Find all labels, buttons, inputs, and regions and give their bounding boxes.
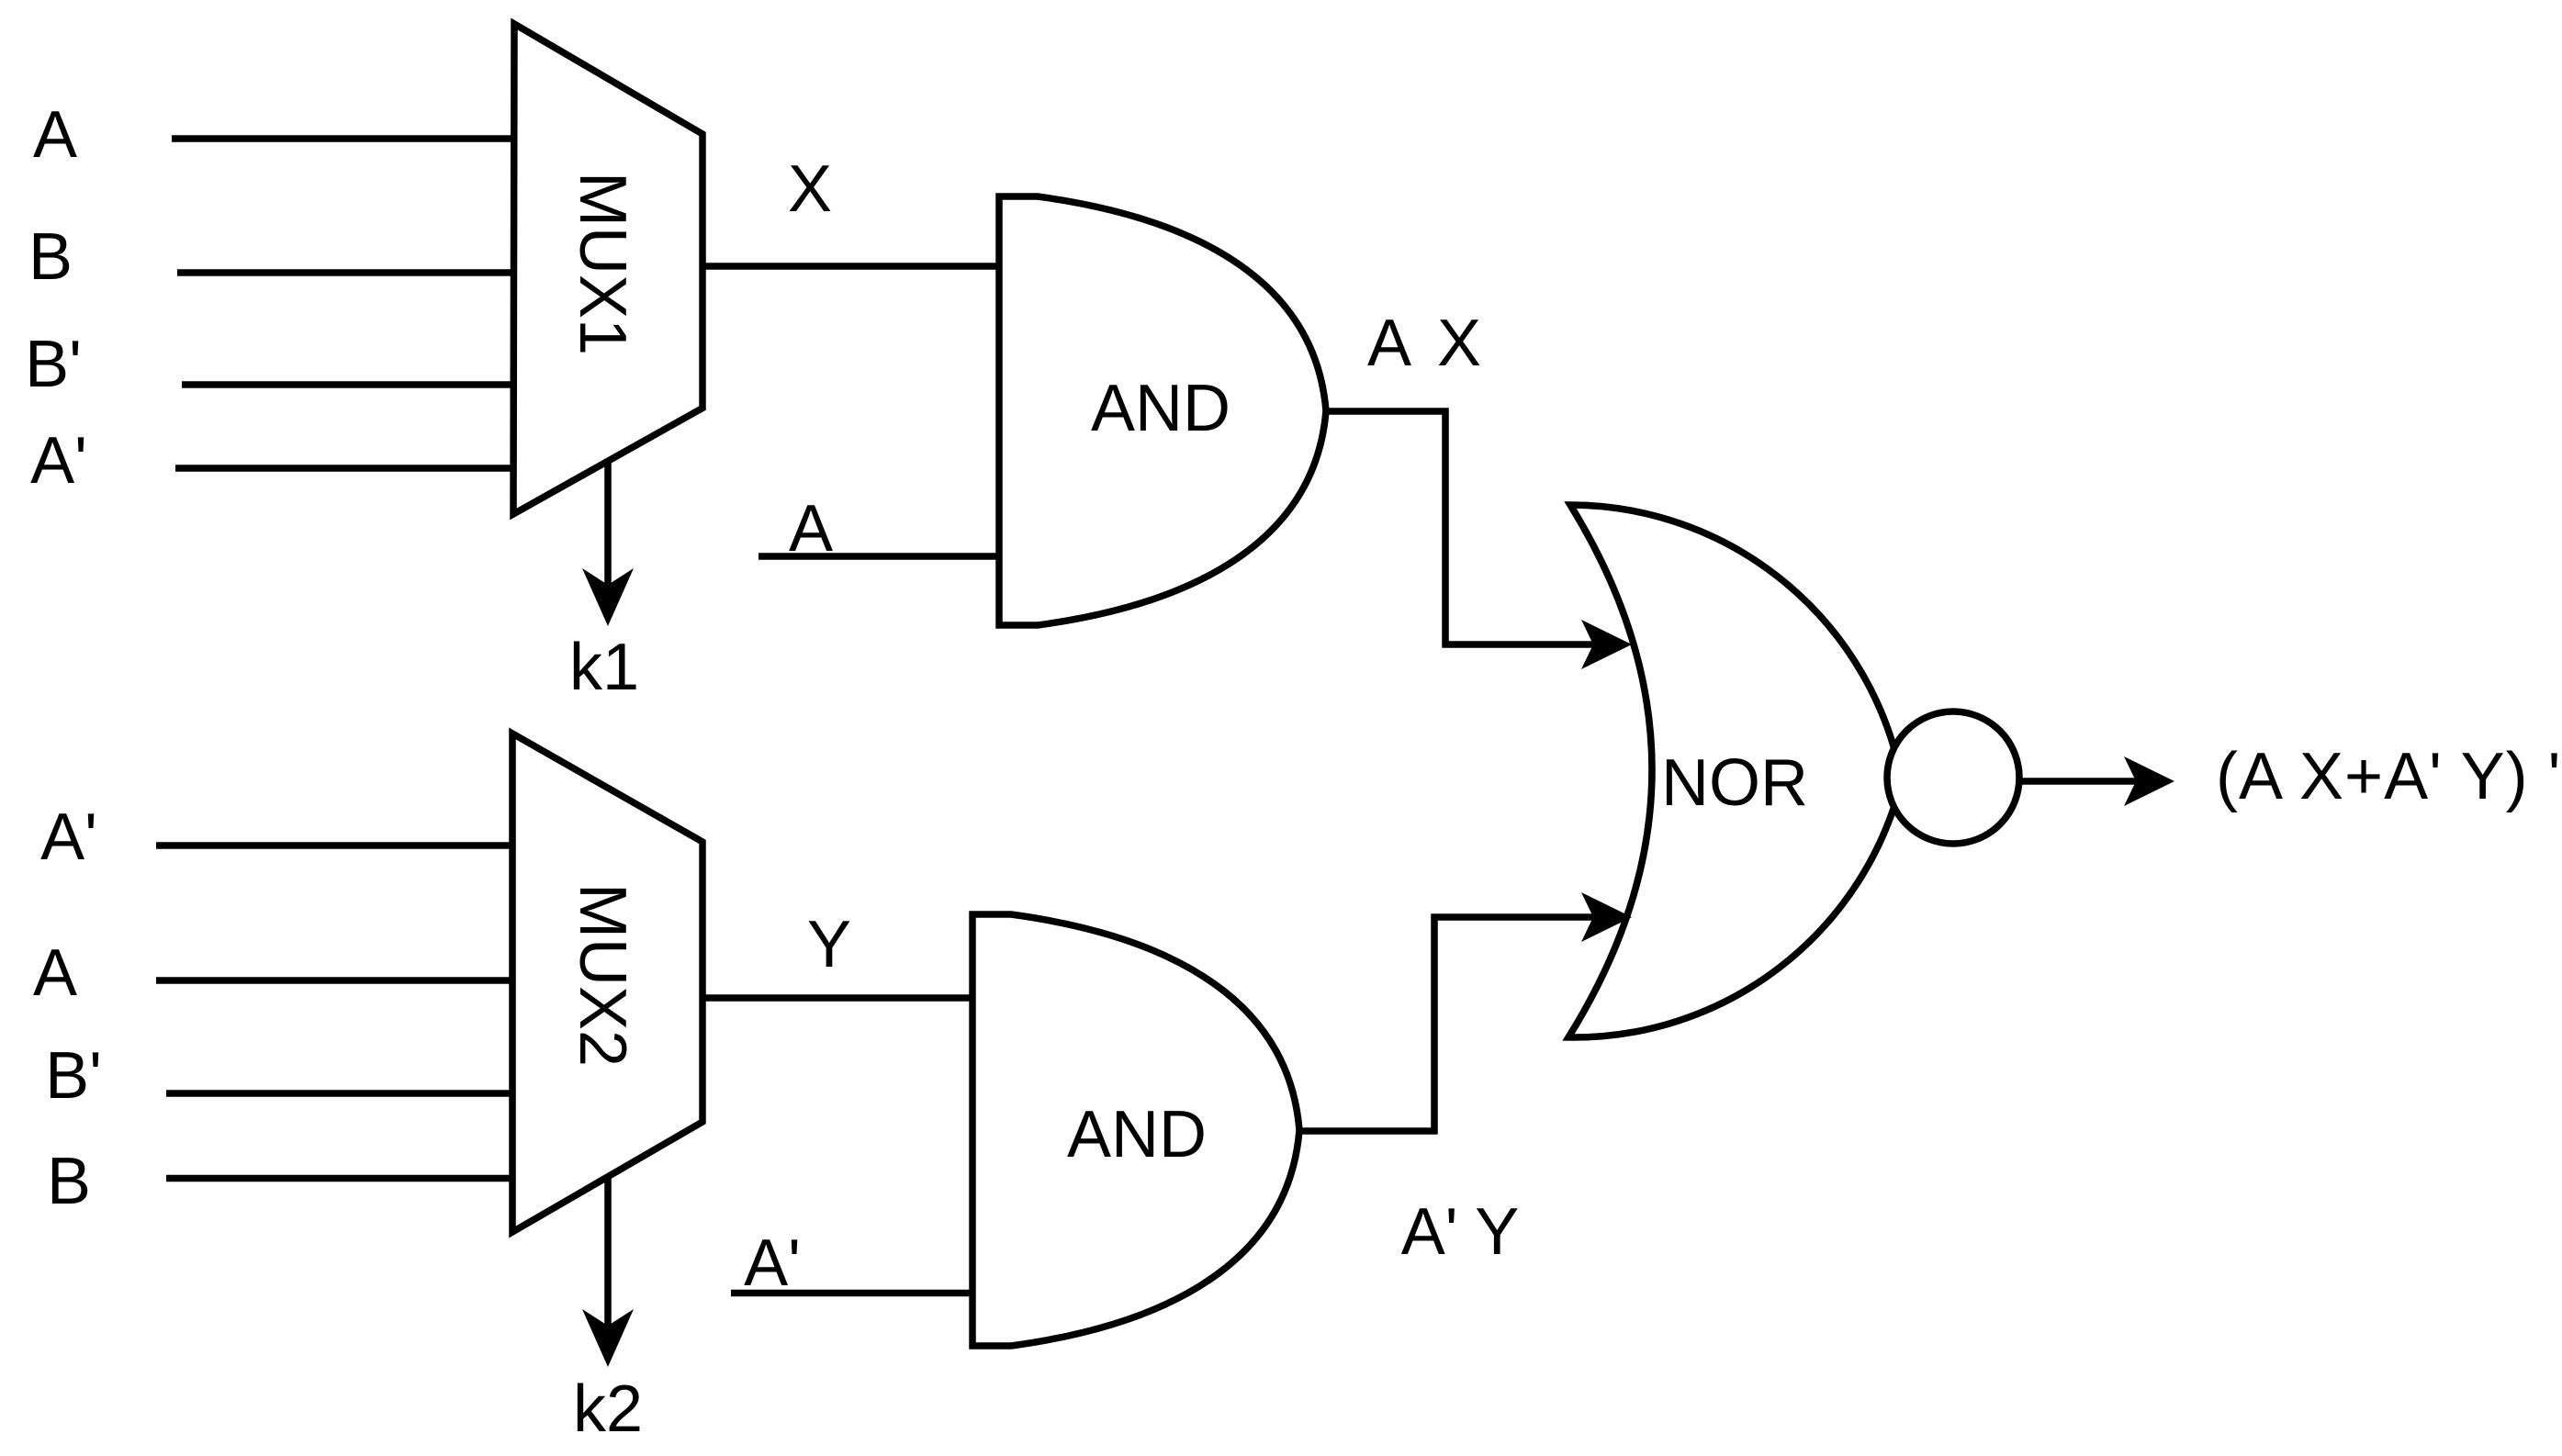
wire B to MUX2 [166,1175,512,1182]
arrowhead A X into NOR [1581,620,1632,669]
svg-text:B: B [47,1145,91,1218]
multiplexer MUX1 body [513,24,702,514]
arrowhead NOR output [2124,756,2174,806]
svg-text:k1: k1 [569,631,639,704]
svg-text:k2: k2 [573,1372,643,1446]
wire Y from MUX2 to AND2 [702,994,972,1002]
wire k2 select (from MUX2 bottom slant) [604,1179,612,1333]
svg-text:A: A [33,98,77,172]
svg-text:(A X+A' Y) ': (A X+A' Y) ' [2216,740,2561,813]
svg-text:B': B' [45,1039,102,1113]
svg-text:NOR: NOR [1661,746,1808,820]
wire A to AND1 [758,553,999,560]
nor-gate U3 body [1568,505,1902,1037]
svg-text:A' Y: A' Y [1401,1195,1520,1269]
svg-text:MUX2: MUX2 [566,883,639,1067]
NOR inversion bubble [1887,711,2019,844]
wire A' to MUX1 [175,465,514,472]
wire X from MUX1 to AND1 [702,263,999,270]
wire A X from AND1 to NOR top input [1326,411,1593,644]
and-gate U2 (bottom AND) [972,914,1299,1346]
svg-text:B: B [28,220,73,294]
svg-text:A: A [33,936,77,1010]
svg-text:AND: AND [1067,1098,1207,1171]
wire A' to MUX2 [156,842,512,849]
svg-text:X: X [788,152,832,226]
wire k1 select (from MUX1 bottom slant) [604,462,612,592]
svg-text:B': B' [25,328,82,401]
svg-text:A': A' [744,1226,801,1300]
arrowhead k2 [582,1309,634,1367]
svg-text:MUX1: MUX1 [566,172,639,355]
wire A to MUX1 [172,135,514,142]
svg-text:A X: A X [1367,307,1487,380]
wire A' Y from AND2 to NOR bottom input [1299,917,1593,1131]
wire NOR output [2022,778,2136,785]
wire A to MUX2 [156,977,512,984]
arrowhead A' Y into NOR [1581,892,1632,942]
svg-text:Y: Y [807,908,851,981]
wire B to MUX1 [177,269,514,276]
multiplexer MUX2 body [512,734,702,1232]
arrowhead k1 [582,568,634,626]
and-gate U1 (top AND) [999,196,1326,625]
wire B' to MUX2 [166,1090,512,1097]
wire B' to MUX1 [182,381,514,388]
svg-text:A': A' [40,801,97,874]
svg-text:A': A' [30,424,87,498]
svg-text:AND: AND [1091,372,1230,445]
wire A' to AND2 [731,1290,972,1297]
